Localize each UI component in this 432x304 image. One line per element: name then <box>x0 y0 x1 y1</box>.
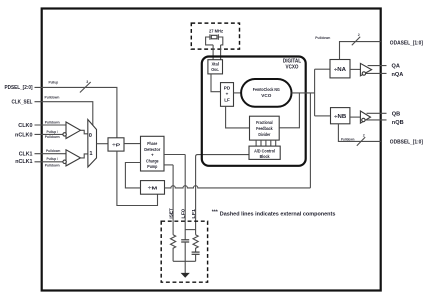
svg-text:Divider: Divider <box>258 132 270 137</box>
wire VCO feedback to divider M <box>309 93 311 188</box>
PD LF box <box>221 83 234 107</box>
svg-text:Detector: Detector <box>144 147 160 152</box>
svg-text:Pulldown: Pulldown <box>315 36 330 40</box>
divider NA box <box>330 60 350 78</box>
resistor on ISET <box>171 235 176 261</box>
label phase detector <box>144 141 160 169</box>
svg-text:Pullup: Pullup <box>49 80 59 84</box>
wire divider NA to output buffer A <box>350 68 360 70</box>
phase detector charge pump box U1 <box>141 136 165 171</box>
svg-text:Fractional: Fractional <box>256 120 273 125</box>
wire CLK1 to input buffer <box>35 153 67 155</box>
svg-text:Pump: Pump <box>147 164 157 169</box>
digital VCXO block outline <box>202 57 306 166</box>
svg-text:1: 1 <box>89 151 92 157</box>
output buffer QB <box>360 111 370 123</box>
net LF1 vertical wire with corner to A/D sense <box>196 155 249 235</box>
svg-text:Pullup /: Pullup / <box>47 157 59 161</box>
svg-text:27 MHz: 27 MHz <box>209 28 224 34</box>
wire LF1 below capacitor <box>195 254 197 261</box>
wire bottom junction <box>173 260 196 262</box>
wire divider M input from VCO feedback with crossover hops <box>165 186 311 188</box>
wire xtal osc to PD LF <box>211 74 221 92</box>
output buffer QA <box>360 63 371 75</box>
wire QB output <box>367 112 387 114</box>
svg-text:Pulldown: Pulldown <box>45 135 60 139</box>
wire crystal pin left to xtal osc <box>212 45 214 60</box>
crystal X1 body <box>211 35 217 39</box>
svg-text:nCLK1: nCLK1 <box>15 159 32 165</box>
wire buffer1 to mux input 1 <box>81 154 88 158</box>
svg-text:CLK1: CLK1 <box>19 152 33 158</box>
bus slash 2 on ODASEL <box>352 37 360 46</box>
resistor on LF1 <box>193 235 198 252</box>
wire PDSEL bus to divider M <box>117 151 158 205</box>
capacitor on LF0 plate2 <box>181 241 189 243</box>
wire mux out to divider P <box>97 143 109 145</box>
inverting bubble nQA <box>362 72 365 75</box>
bus slash 2 on ODBSEL <box>357 137 365 146</box>
svg-text:ISET: ISET <box>169 208 175 218</box>
bus ticks between FFD and AD control <box>256 140 276 146</box>
svg-text:VCO: VCO <box>261 93 271 98</box>
wire ODBSEL to divider NB <box>338 124 380 142</box>
svg-text:÷NB: ÷NB <box>334 114 346 120</box>
xtal oscillator box <box>208 60 223 74</box>
svg-text:LF: LF <box>224 98 230 103</box>
svg-text:2: 2 <box>358 33 360 37</box>
divider M box <box>141 181 165 195</box>
capacitor on LF1 plate1 <box>192 251 200 253</box>
wire PD LF to VCO <box>234 92 242 94</box>
svg-text:A/D Control: A/D Control <box>254 149 275 154</box>
svg-text:÷NA: ÷NA <box>334 67 346 73</box>
wire to divider NB <box>315 115 331 117</box>
wire CLK_SEL to mux select <box>35 102 93 126</box>
svg-text:LF1: LF1 <box>191 209 197 219</box>
wire QA output <box>368 65 387 67</box>
label A/D control block <box>254 149 275 160</box>
svg-text:QA: QA <box>392 64 400 70</box>
wire divider M out to phase detector feedback <box>125 163 140 188</box>
wire nQA output <box>366 72 387 74</box>
svg-text:+: + <box>226 92 229 97</box>
wire charge pump out to LF0 <box>164 154 185 156</box>
svg-text:Charge: Charge <box>146 159 159 164</box>
wire to divider NA <box>315 68 330 70</box>
svg-text:FemtoClock NG: FemtoClock NG <box>253 87 280 92</box>
svg-text:Pulldown: Pulldown <box>45 121 60 125</box>
label Xtal Osc. <box>211 62 219 73</box>
wire connector LF0 to LF1 <box>185 229 195 231</box>
divider NB box <box>331 108 350 124</box>
bus slash 3 on PDSEL <box>80 82 91 93</box>
inverting bubble nCLK1 <box>63 160 66 163</box>
label fractional feedback divider <box>256 120 273 137</box>
svg-text:CLK_SEL: CLK_SEL <box>12 100 33 106</box>
inverting bubble nQB <box>362 118 365 121</box>
wire CLK0 to input buffer <box>35 124 67 126</box>
FemtoClock NG VCO stadium <box>241 79 291 107</box>
external crystal dashed box <box>191 23 239 49</box>
svg-text:Pullup /: Pullup / <box>47 130 59 134</box>
inverting bubble nCLK0 <box>63 133 66 136</box>
svg-text:Pulldown: Pulldown <box>341 138 355 142</box>
mux clock select <box>88 120 97 168</box>
wire ODASEL to divider NA <box>340 42 381 60</box>
wire VCO output <box>292 92 315 94</box>
svg-text:÷M: ÷M <box>148 186 158 191</box>
svg-text:2: 2 <box>363 133 365 137</box>
AD control block box <box>249 146 280 159</box>
fractional feedback divider box <box>250 116 280 140</box>
ground symbol arrow <box>181 273 190 278</box>
net LF0 vertical wire <box>184 155 186 240</box>
svg-text:Pulldown: Pulldown <box>45 163 60 167</box>
svg-text:0: 0 <box>89 133 92 139</box>
wire LF0 below capacitor to ground <box>184 242 186 274</box>
input buffer CLK1 <box>66 150 81 166</box>
crystal plate left <box>209 34 211 40</box>
external loop filter dashed box <box>161 221 207 282</box>
svg-text:Pulldown: Pulldown <box>45 95 60 99</box>
svg-text:Xtal: Xtal <box>211 62 219 67</box>
svg-text:nCLK0: nCLK0 <box>15 132 33 138</box>
frame border of device <box>42 9 381 291</box>
wire charge pump out to ISET <box>164 164 173 166</box>
capacitor on LF0 plate1 <box>181 239 189 241</box>
svg-text:nQB: nQB <box>392 120 404 126</box>
wire PD LF to fractional feedback divider <box>226 106 250 128</box>
label PD + LF <box>224 86 231 103</box>
svg-text:LF0: LF0 <box>180 209 186 219</box>
label FemtoClock NG VCO <box>253 87 280 98</box>
svg-text:Feedback: Feedback <box>256 126 273 131</box>
input buffer CLK0 <box>66 122 81 139</box>
wire PDSEL to divider P <box>35 87 117 137</box>
svg-text:PD: PD <box>224 86 231 91</box>
svg-text:***: *** <box>212 210 219 216</box>
wire divider NB to output buffer B <box>350 116 361 118</box>
label DIGITAL VCXO <box>283 59 302 71</box>
svg-text:Pulldown: Pulldown <box>46 149 60 153</box>
svg-text:Dashed lines indicates externa: Dashed lines indicates external componen… <box>220 212 336 218</box>
wire VCO to FFD input <box>279 93 299 128</box>
wire divider P to phase detector <box>124 143 141 145</box>
svg-text:ODBSEL_[1:0]: ODBSEL_[1:0] <box>390 140 423 146</box>
capacitor on LF1 plate2 <box>192 253 200 255</box>
crystal pin bracket left <box>206 37 214 45</box>
svg-text:Osc.: Osc. <box>211 67 219 72</box>
wire nQB output <box>365 119 386 121</box>
wire crystal pin right to xtal osc <box>220 45 222 60</box>
svg-text:VCXO: VCXO <box>286 64 299 70</box>
svg-text:PDSEL_[2:0]: PDSEL_[2:0] <box>5 85 33 91</box>
svg-text:ODASEL_[1:0]: ODASEL_[1:0] <box>390 40 423 46</box>
svg-text:3: 3 <box>86 80 88 84</box>
svg-text:+: + <box>151 153 154 158</box>
svg-text:nQA: nQA <box>392 72 404 78</box>
svg-text:Phase: Phase <box>147 141 157 146</box>
svg-text:Block: Block <box>260 154 270 159</box>
wire buffer0 to mux input 0 <box>81 130 88 134</box>
crystal pin bracket right <box>218 37 222 45</box>
svg-text:QB: QB <box>392 111 400 117</box>
wire nCLK0 to input buffer inverting pin <box>35 133 63 135</box>
net ISET vertical wire <box>172 165 174 235</box>
svg-text:÷P: ÷P <box>112 142 120 147</box>
crystal plate right <box>217 34 219 40</box>
wire output distribution vertical <box>314 69 316 116</box>
divider P box <box>108 138 124 151</box>
svg-text:CLK0: CLK0 <box>18 123 32 129</box>
wire nCLK1 to input buffer inverting pin <box>35 161 63 163</box>
footnote dashed lines external components <box>212 210 336 218</box>
